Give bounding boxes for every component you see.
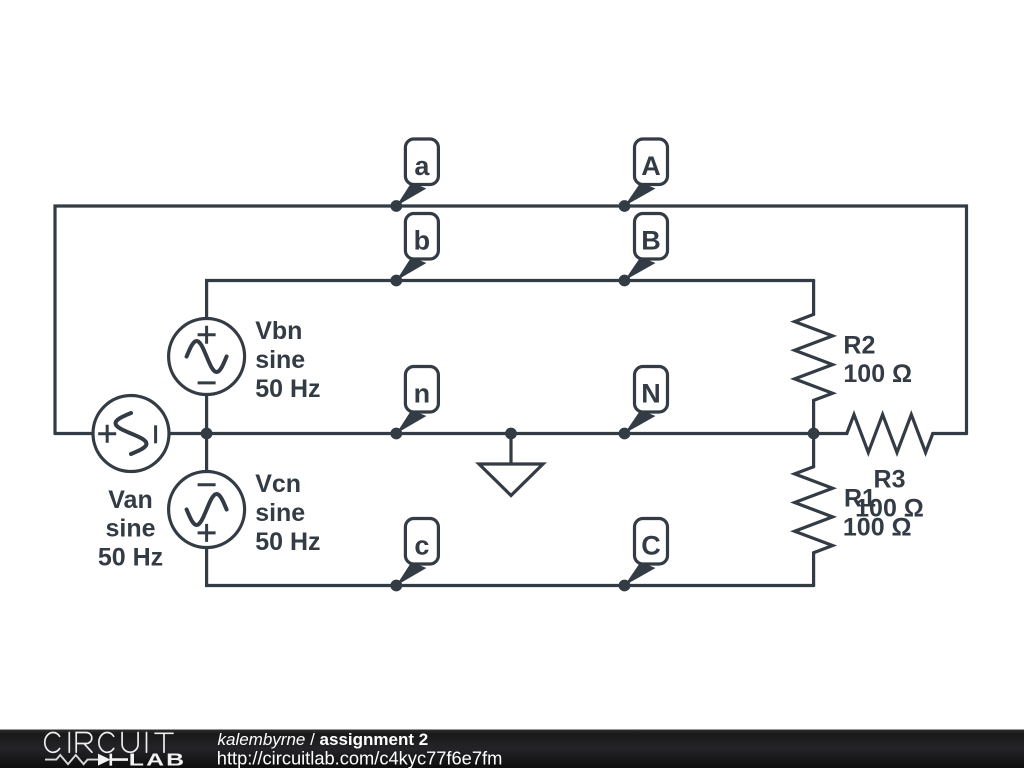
- svg-text:B: B: [641, 226, 661, 256]
- svg-text:sine: sine: [255, 346, 305, 374]
- svg-text:100 Ω: 100 Ω: [843, 360, 912, 388]
- svg-text:c: c: [414, 531, 429, 561]
- svg-text:sine: sine: [105, 515, 155, 543]
- svg-text:50 Hz: 50 Hz: [255, 375, 320, 403]
- svg-text:b: b: [414, 226, 431, 256]
- svg-text:Van: Van: [108, 486, 152, 514]
- svg-text:A: A: [641, 151, 661, 181]
- svg-text:50 Hz: 50 Hz: [255, 528, 320, 556]
- svg-text:Vbn: Vbn: [255, 317, 302, 345]
- svg-text:R2: R2: [843, 331, 875, 359]
- svg-text:kalembyrne / assignment 2: kalembyrne / assignment 2: [218, 730, 429, 749]
- svg-text:100 Ω: 100 Ω: [855, 494, 924, 522]
- svg-text:50 Hz: 50 Hz: [98, 544, 163, 572]
- svg-text:LAB: LAB: [129, 750, 186, 768]
- svg-text:C: C: [641, 531, 661, 561]
- svg-text:R3: R3: [874, 465, 906, 493]
- svg-text:a: a: [414, 151, 430, 181]
- svg-text:Vcn: Vcn: [255, 470, 301, 498]
- svg-text:sine: sine: [255, 499, 305, 527]
- svg-text:N: N: [641, 379, 661, 409]
- svg-text:http://circuitlab.com/c4kyc77f: http://circuitlab.com/c4kyc77f6e7fm: [217, 747, 503, 768]
- svg-text:n: n: [414, 379, 431, 409]
